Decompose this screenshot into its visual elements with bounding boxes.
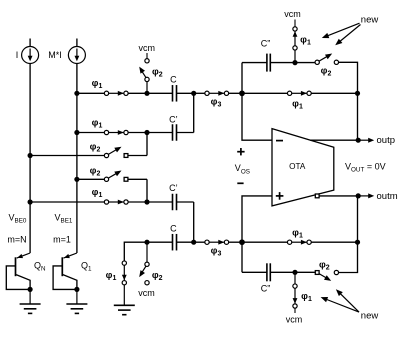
OTA outm tap bubble: [315, 194, 319, 198]
capacitor C-dblprime bottom: [267, 263, 270, 281]
OTA plus input sign: [276, 192, 284, 200]
label C bottom: [170, 224, 177, 234]
wire noninv node to phi1 fb: [242, 241, 288, 243]
wire vcm stub top-left: [146, 53, 148, 59]
wire right rail bottom segment: [357, 196, 359, 242]
label phi1 bottom-right: [301, 291, 312, 303]
node vcm-A junction: [144, 91, 149, 96]
switch phi2 top feedback: [315, 54, 338, 65]
wire inv node riser up: [241, 63, 243, 94]
label QN: [34, 260, 46, 272]
wire row A to vcm node: [128, 92, 147, 94]
label VOUT = 0V: [345, 162, 386, 174]
current source I: [22, 39, 39, 64]
svg-text:C’: C’: [169, 114, 178, 124]
junction outp: [356, 138, 361, 143]
junction post-C: [191, 91, 196, 96]
wire phi3 to noninv node: [229, 241, 243, 243]
ground bottom-mid: [114, 305, 135, 314]
junction Q1 collector-base: [74, 287, 79, 292]
capacitor C top: [173, 85, 177, 102]
svg-text:M*I: M*I: [48, 50, 62, 60]
wire row E from I rail: [30, 201, 104, 203]
label VOS plus: [237, 148, 244, 155]
annotation arrow new to phi2 bottom: [336, 289, 359, 312]
wire row D from M*I rail: [77, 178, 105, 180]
label phi1 top fb: [292, 99, 303, 111]
capacitor C bottom: [173, 234, 177, 251]
wire top feedback left: [242, 62, 267, 64]
wire phi1 fb to right rail bottom: [311, 241, 357, 243]
transistor QN base bar: [15, 257, 17, 276]
wire outp: [310, 139, 357, 141]
wire phi3 to inv node: [229, 92, 243, 94]
wire vcm stub bottom-right: [294, 308, 296, 313]
label VBE1: [55, 212, 73, 224]
switch phi3 bottom: [205, 240, 229, 245]
svg-text:outm: outm: [377, 191, 398, 202]
wire noninv node riser down: [241, 242, 243, 272]
label C-prime row E: [169, 183, 178, 193]
wire switch to ground: [123, 285, 125, 306]
switch phi1 to ground bottom-left: [122, 261, 127, 285]
switch phi2 to vcm top-left: [139, 59, 149, 82]
arrow outm: [358, 193, 374, 198]
wire QN to ground: [29, 289, 31, 304]
svg-text:vcm: vcm: [284, 9, 301, 19]
wire I rail: [29, 64, 31, 254]
wire row F vcm drop: [146, 242, 148, 262]
label outm: [377, 191, 398, 202]
junction row D / M*I rail: [74, 177, 79, 182]
label phi2 top feedback: [321, 66, 332, 78]
wire row F left drop: [124, 242, 172, 261]
switch phi1 vcm bottom-right: [293, 284, 298, 308]
svg-text:C’: C’: [169, 183, 178, 193]
wire vcm switch from bottom feedback: [294, 272, 296, 284]
junction row F / vcm branch: [144, 240, 149, 245]
arrow outp: [358, 138, 374, 143]
wire row E to riser: [177, 201, 194, 203]
svg-text:C”: C”: [261, 284, 271, 294]
svg-text:vcm: vcm: [286, 315, 303, 325]
wire row D to riser: [128, 178, 147, 180]
wire to phi3 switch: [194, 92, 205, 94]
junction row F post-C: [191, 240, 196, 245]
junction row C / I rail: [28, 153, 33, 158]
label outp: [377, 135, 396, 146]
svg-text:new: new: [361, 14, 379, 25]
label VBE0: [9, 212, 27, 224]
wire C-dblprime to junction bottom: [271, 271, 295, 273]
label new top: [361, 14, 379, 25]
label C-prime row B: [169, 114, 178, 124]
wire inv node to phi1 fb: [242, 92, 288, 94]
label phi2 row C: [90, 142, 101, 154]
switch phi1 row E: [104, 200, 128, 205]
wire row A from M*I rail: [77, 92, 105, 94]
current source M*I: [68, 39, 85, 64]
svg-text:OTA: OTA: [289, 162, 306, 171]
ground QN: [20, 304, 41, 313]
svg-text:vcm: vcm: [138, 43, 155, 53]
wire row C to riser: [128, 155, 147, 157]
OTA minus input sign: [276, 140, 283, 142]
label C top: [170, 74, 177, 84]
wire cap C bottom to junction: [177, 241, 194, 243]
transistor Q1 emitter: [64, 253, 77, 258]
svg-text:C”: C”: [261, 39, 271, 49]
node OTA noninverting input: [239, 239, 245, 245]
wire C-dblprime to junction: [271, 62, 295, 64]
junction right rail / phi1 fb bottom: [355, 240, 360, 245]
node OTA inverting input: [239, 90, 245, 96]
label vcm top-left: [138, 43, 155, 53]
svg-text:C: C: [170, 224, 177, 234]
label phi1 ground switch: [106, 270, 117, 282]
wire row E to junction: [128, 201, 173, 203]
wire vcm switch to top feedback: [294, 50, 296, 63]
junction row A / M*I rail: [74, 91, 79, 96]
label vcm top-right: [284, 9, 301, 19]
switch phi2 row C: [104, 147, 128, 158]
wire M*I rail: [76, 64, 78, 254]
svg-text:I: I: [16, 50, 19, 60]
transistor Q1 collector: [63, 275, 77, 290]
wire junction to phi2 bottom: [295, 271, 315, 273]
wire row C from I rail: [30, 155, 104, 157]
label vcm bottom-mid: [138, 288, 155, 298]
svg-text:new: new: [361, 311, 379, 322]
svg-text:m=1: m=1: [53, 235, 71, 245]
junction outm: [356, 193, 361, 198]
annotation arrow new to phi1 top: [322, 23, 360, 38]
transistor QN emitter: [17, 253, 30, 258]
svg-text:m=N: m=N: [7, 235, 26, 245]
wire to phi3 bottom: [194, 241, 205, 243]
junction right rail / phi1 fb: [355, 91, 360, 96]
junction QN collector-base: [28, 287, 33, 292]
label phi3 top: [211, 97, 222, 109]
wire riser D to E: [146, 179, 148, 202]
svg-text:C: C: [170, 74, 177, 84]
wire riser E to F: [193, 202, 195, 242]
label vcm bottom-right: [286, 315, 303, 325]
switch phi1 bottom feedback: [287, 240, 311, 245]
switch phi1 row B: [104, 130, 128, 135]
label VOS: [235, 163, 250, 175]
svg-text:outp: outp: [377, 135, 396, 146]
wire vcm stub top-right: [294, 20, 296, 27]
ground Q1: [66, 304, 87, 313]
label phi2 top-left vcm: [152, 67, 163, 79]
op-amp OTA body: [272, 129, 334, 206]
wire outm: [319, 195, 357, 197]
label phi1 bottom fb: [292, 227, 303, 239]
switch phi1 vcm top-right: [293, 27, 298, 50]
label C-dblprime top: [261, 39, 271, 49]
label M*I: [48, 50, 62, 60]
switch phi2 to vcm bottom-mid: [139, 262, 149, 285]
wire cap C to junction: [177, 92, 194, 94]
label new bottom: [361, 311, 379, 322]
capacitor C-prime row B: [173, 124, 177, 141]
annotation arrow new to phi2 top: [335, 25, 360, 46]
junction row E / phi2 branch: [144, 199, 149, 204]
wire row A to cap C: [147, 92, 173, 94]
wire inv input drop: [242, 93, 272, 140]
switch phi2 row D: [104, 171, 128, 182]
switch phi1 top feedback: [287, 91, 311, 96]
transistor QN collector: [16, 275, 30, 290]
wire row B to riser: [177, 132, 194, 134]
label phi1 row E: [92, 187, 103, 199]
label phi1 row B: [92, 118, 103, 130]
wire junction to phi2 top: [295, 62, 315, 64]
annotation arrow new to phi1 bottom: [321, 297, 359, 312]
label phi2 bottom feedback: [319, 259, 330, 271]
label I: [16, 50, 19, 60]
label phi1 row A: [92, 78, 103, 90]
label m=1: [53, 235, 71, 245]
transistor Q1 base bar: [61, 257, 63, 276]
label VOS minus: [237, 182, 243, 184]
wire bottom feedback left: [242, 271, 267, 273]
wire vcm switch to row A: [146, 81, 148, 93]
label C-dblprime bottom: [261, 284, 271, 294]
capacitor C-dblprime top: [267, 54, 270, 72]
wire row B to junction: [128, 132, 173, 134]
wire riser B to A: [193, 93, 195, 132]
label m=N: [7, 235, 26, 245]
label phi3 bottom: [211, 246, 222, 258]
label OTA: [289, 162, 306, 171]
switch phi2 bottom feedback: [315, 270, 338, 281]
junction bottom feedback / vcm switch: [292, 270, 297, 275]
switch phi3 top: [205, 91, 229, 96]
svg-text:vcm: vcm: [138, 288, 155, 298]
label Q1: [81, 260, 92, 272]
wire QN base tie: [6, 266, 30, 290]
label phi2 row D: [90, 165, 101, 177]
switch phi1 row A: [104, 91, 128, 96]
wire Q1 to ground: [76, 289, 78, 304]
wire phi2 to right rail bottom: [338, 242, 357, 272]
wire phi2 to right rail top: [338, 62, 357, 93]
wire right rail top segment: [357, 93, 359, 140]
wire phi1 fb to right rail: [311, 92, 357, 94]
junction row B / M*I rail: [74, 130, 79, 135]
label phi2 bottom-mid: [152, 270, 163, 282]
capacitor C-prime row E: [173, 194, 177, 211]
wire row B from M*I rail: [77, 132, 105, 134]
wire Q1 base tie: [53, 266, 77, 290]
wire riser C to B: [146, 133, 148, 156]
junction row E / I rail: [28, 199, 33, 204]
junction top feedback / vcm switch: [292, 60, 297, 65]
label phi1 top-right: [300, 34, 311, 46]
junction row B / phi2 branch: [144, 130, 149, 135]
wire noninv input rise: [242, 196, 272, 242]
